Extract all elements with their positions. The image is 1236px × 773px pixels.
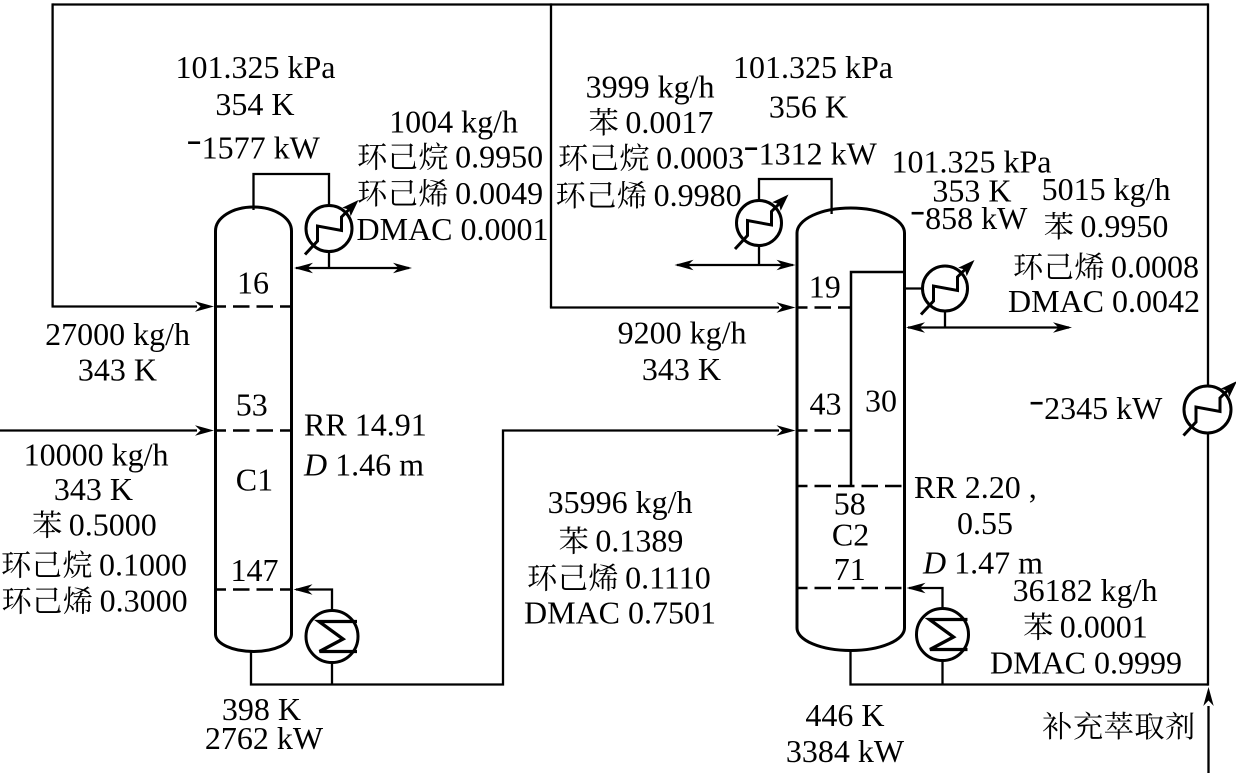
label benzene product flow xyxy=(1042,171,1171,207)
svg-text:0.9950: 0.9950 xyxy=(1080,208,1168,244)
label C1 stage 147 xyxy=(231,552,279,588)
pipe: C1 bottoms to C2 stage 43 xyxy=(251,431,779,685)
svg-text:0.0003: 0.0003 xyxy=(656,140,744,176)
svg-text:1004 kg/h: 1004 kg/h xyxy=(389,104,518,140)
pipe: make-up extractant xyxy=(1207,706,1209,773)
svg-text:147: 147 xyxy=(231,552,279,588)
svg-text:16: 16 xyxy=(237,265,269,301)
label C1 condenser temperature xyxy=(215,86,294,122)
label fresh feed cyclohexane fraction xyxy=(2,547,187,583)
svg-text:0.1000: 0.1000 xyxy=(99,547,187,583)
svg-text:0.0049: 0.0049 xyxy=(455,175,543,211)
svg-text:19: 19 xyxy=(809,268,841,304)
svg-text:RR 14.91: RR 14.91 xyxy=(304,407,427,443)
pipe: C1 reflux & distillate line xyxy=(296,267,409,269)
svg-text:DMAC 0.9999: DMAC 0.9999 xyxy=(990,645,1182,681)
label C2 bottoms flow xyxy=(1013,572,1158,608)
label fresh feed flow xyxy=(24,437,169,473)
label C2 side section stages xyxy=(865,383,897,419)
arrowhead into C1 stage 53 xyxy=(195,425,214,435)
svg-text:446 K: 446 K xyxy=(805,697,884,733)
label C2 stage 58 xyxy=(834,486,866,522)
label C2 condenser pressure xyxy=(733,49,893,85)
label C2 condenser temperature xyxy=(769,89,848,125)
pipe: C1 reboiler to bottoms line xyxy=(331,663,333,685)
recycle cooler (-2345 kW) xyxy=(1184,386,1231,433)
label C2 distillate benzene fraction xyxy=(590,104,714,140)
label C1 bottoms benzene fraction xyxy=(560,523,684,559)
svg-text:343 K: 343 K xyxy=(642,351,721,387)
condenser C2 heat-flow zigzag arrow xyxy=(735,195,789,250)
pipe: fresh feed into C1 at stage 53 xyxy=(0,429,197,431)
svg-text:1577 kW: 1577 kW xyxy=(202,130,321,166)
label C1 condenser duty xyxy=(188,130,321,166)
label C1 reboiler duty xyxy=(205,720,324,756)
svg-text:0.55: 0.55 xyxy=(957,505,1013,541)
svg-text:343 K: 343 K xyxy=(54,471,133,507)
svg-text:0.0001: 0.0001 xyxy=(1060,609,1148,645)
svg-text:C2: C2 xyxy=(832,516,869,552)
label C2 bottoms benzene fraction xyxy=(1024,609,1148,645)
condenser of C1 xyxy=(306,206,352,252)
label recycle extractant to C1 flow xyxy=(45,316,190,352)
label C1 distillate flow xyxy=(389,104,518,140)
label recycle cooler duty xyxy=(1031,390,1164,426)
reboiler of C1 xyxy=(306,611,358,663)
label side condenser temperature xyxy=(932,173,1011,209)
label fresh feed benzene fraction xyxy=(33,507,157,543)
label C2 distillate cyclohexane fraction xyxy=(559,140,744,176)
C1 stage 16 tray (dashed) xyxy=(217,305,290,308)
label C1 bottoms DMAC fraction xyxy=(524,595,716,631)
svg-text:10000 kg/h: 10000 kg/h xyxy=(24,437,169,473)
svg-text:3999 kg/h: 3999 kg/h xyxy=(586,69,715,105)
svg-text:3384 kW: 3384 kW xyxy=(786,733,905,769)
svg-text:356 K: 356 K xyxy=(769,89,848,125)
label C2 diameter xyxy=(922,545,1043,581)
svg-text:9200 kg/h: 9200 kg/h xyxy=(618,315,747,351)
svg-text:343 K: 343 K xyxy=(78,352,157,388)
svg-text:0.1110: 0.1110 xyxy=(625,560,711,596)
svg-text:RR 2.20 ,: RR 2.20 , xyxy=(914,469,1037,505)
pipe: side section vapor to side condenser xyxy=(905,287,923,289)
reboiler of C2 xyxy=(917,609,969,661)
label C1 stage 53 xyxy=(236,386,268,422)
column C2 shell xyxy=(797,208,905,651)
svg-text:0.9980: 0.9980 xyxy=(654,177,742,213)
arrowhead C1 reboiler return xyxy=(294,584,313,594)
column C1 shell xyxy=(216,207,292,652)
pipe: C2 reflux & distillate line xyxy=(677,264,793,266)
label C2 stage 71 xyxy=(834,551,866,587)
svg-text:53: 53 xyxy=(236,386,268,422)
side condenser heat-flow zigzag arrow xyxy=(921,260,975,315)
label C1 bottoms cyclohexene fraction xyxy=(528,560,711,596)
label side condenser pressure xyxy=(892,144,1052,180)
C2 stage 71 tray (dashed) xyxy=(799,587,904,590)
side condenser of C2 xyxy=(923,266,968,311)
label recycle extractant to C1 temperature xyxy=(78,352,157,388)
label C1 stage 16 xyxy=(237,265,269,301)
reboiler C2 sigma symbol xyxy=(930,620,968,650)
label side condenser duty xyxy=(912,200,1029,236)
condenser C1 heat-flow zigzag arrow xyxy=(305,200,359,255)
pipe: recycle riser below cooler xyxy=(1207,433,1209,686)
svg-text:0.1389: 0.1389 xyxy=(595,523,683,559)
label recycle extractant to C2 flow xyxy=(618,315,747,351)
pipe: C1 overhead vapor to condenser xyxy=(254,174,330,210)
label benzene product DMAC fraction xyxy=(1008,283,1200,319)
svg-text:D: D xyxy=(922,545,946,581)
arrowhead into C2 stage 43 xyxy=(777,425,796,435)
pipe: recycle drop to C1 stage 16 xyxy=(51,3,53,306)
label C2 second reflux ratio xyxy=(957,505,1013,541)
label C1 bottoms flow xyxy=(548,484,693,520)
svg-text:43: 43 xyxy=(810,385,842,421)
condenser of C2 xyxy=(737,201,782,246)
arrowhead side reflux into column xyxy=(906,322,925,332)
pipe: C2 condenser outlet xyxy=(758,246,760,266)
C1 stage 53 tray (dashed) xyxy=(217,429,290,432)
svg-text:0.9950: 0.9950 xyxy=(455,139,543,175)
pipe: side condenser outlet xyxy=(944,311,946,328)
label C1 reflux ratio xyxy=(304,407,427,443)
label column C2 name xyxy=(832,516,869,552)
svg-text:DMAC 0.0042: DMAC 0.0042 xyxy=(1008,283,1200,319)
pipe: extractant recycle top header xyxy=(53,3,1208,5)
svg-text:C1: C1 xyxy=(236,462,273,498)
label C1 condenser pressure xyxy=(176,49,336,85)
arrowhead C1 distillate out xyxy=(393,263,412,273)
svg-text:36182 kg/h: 36182 kg/h xyxy=(1013,572,1158,608)
label C2 reboiler duty xyxy=(786,733,905,769)
C2 stage 19 tray (dashed) xyxy=(799,306,852,309)
label C2 bottoms DMAC fraction xyxy=(990,645,1182,681)
pipe: C2 bottoms to riser xyxy=(851,649,1209,685)
svg-text:71: 71 xyxy=(834,551,866,587)
C2 stage 43 tray (dashed) xyxy=(799,429,852,432)
svg-text:0.5000: 0.5000 xyxy=(69,507,157,543)
svg-text:2762 kW: 2762 kW xyxy=(205,720,324,756)
pipe: C2 overhead vapor to condenser xyxy=(759,179,832,214)
svg-text:354 K: 354 K xyxy=(215,86,294,122)
arrowhead into C2 stage 19 xyxy=(777,302,796,312)
svg-text:101.325 kPa: 101.325 kPa xyxy=(176,49,336,85)
recycle cooler heat-flow zigzag arrow xyxy=(1184,381,1236,436)
arrowhead C2 reboiler return xyxy=(907,583,926,593)
svg-text:D: D xyxy=(303,447,327,483)
arrowhead C1 reflux into column xyxy=(294,263,313,273)
pipe: C2 reboiler return to stage 71 xyxy=(909,588,943,609)
label C2 distillate cyclohexene fraction xyxy=(557,177,742,213)
label C2 stage 19 xyxy=(809,268,841,304)
label recycle extractant to C2 temperature xyxy=(642,351,721,387)
label C2 stage 43 xyxy=(810,385,842,421)
pipe: recycle drop to C2 stage 19 xyxy=(550,3,552,307)
svg-text:1312 kW: 1312 kW xyxy=(759,136,878,172)
pipe: side reflux & benzene product line xyxy=(908,326,1069,328)
label C2 distillate flow xyxy=(586,69,715,105)
reboiler C1 sigma symbol xyxy=(319,622,357,652)
svg-text:35996 kg/h: 35996 kg/h xyxy=(548,484,693,520)
label C2 condenser duty xyxy=(745,136,878,172)
svg-text:858 kW: 858 kW xyxy=(925,200,1028,236)
label fresh feed temperature xyxy=(54,471,133,507)
label C1 distillate cyclohexane fraction xyxy=(358,139,543,175)
arrowhead into C1 stage 16 xyxy=(195,301,214,311)
svg-text:0.3000: 0.3000 xyxy=(100,583,188,619)
pipe: extractant feed into C1 at stage 16 xyxy=(52,305,198,307)
label make-up extractant xyxy=(1043,712,1194,740)
C1 stage 147 tray (dashed) xyxy=(217,588,290,591)
arrowhead make-up extractant (up) xyxy=(1203,687,1213,706)
svg-text:101.325 kPa: 101.325 kPa xyxy=(733,49,893,85)
svg-text:27000 kg/h: 27000 kg/h xyxy=(45,316,190,352)
svg-text:DMAC 0.7501: DMAC 0.7501 xyxy=(524,595,716,631)
pipe: extractant feed into C2 at stage 19 xyxy=(550,306,779,308)
label C1 bottoms temperature xyxy=(222,691,301,727)
svg-text:0.0017: 0.0017 xyxy=(625,104,713,140)
C2 stage 58 tray (dashed) xyxy=(799,485,904,488)
svg-text:1.46 m: 1.46 m xyxy=(327,447,424,483)
svg-text:30: 30 xyxy=(865,383,897,419)
pipe: C1 reboiler return to stage 147 xyxy=(296,590,332,612)
svg-text:5015 kg/h: 5015 kg/h xyxy=(1042,171,1171,207)
svg-text:DMAC 0.0001: DMAC 0.0001 xyxy=(357,211,549,247)
svg-text:2345 kW: 2345 kW xyxy=(1044,390,1163,426)
pipe: C1 condenser outlet to reflux/distillate xyxy=(328,252,330,269)
svg-text:0.0008: 0.0008 xyxy=(1111,249,1199,285)
label column C1 name xyxy=(236,462,273,498)
C2 dividing wall (side rectifier with 30 stages) xyxy=(851,272,905,486)
label C2 reflux ratios xyxy=(914,469,1037,505)
pipe: C2 reboiler to bottoms line xyxy=(941,661,943,685)
label C1 diameter xyxy=(303,447,424,483)
label benzene product cyclohexene fraction xyxy=(1014,249,1199,285)
pipe: recycle riser above cooler xyxy=(1207,3,1209,386)
label fresh feed cyclohexene fraction xyxy=(3,583,188,619)
label C1 distillate cyclohexene fraction xyxy=(358,175,543,211)
label C1 distillate DMAC fraction xyxy=(357,211,549,247)
arrowhead C2 reflux into column xyxy=(777,260,796,270)
label benzene product benzene fraction xyxy=(1045,208,1169,244)
arrowhead benzene product out xyxy=(1053,322,1072,332)
arrowhead C2 distillate out (left) xyxy=(675,260,694,270)
label C2 bottoms temperature xyxy=(805,697,884,733)
